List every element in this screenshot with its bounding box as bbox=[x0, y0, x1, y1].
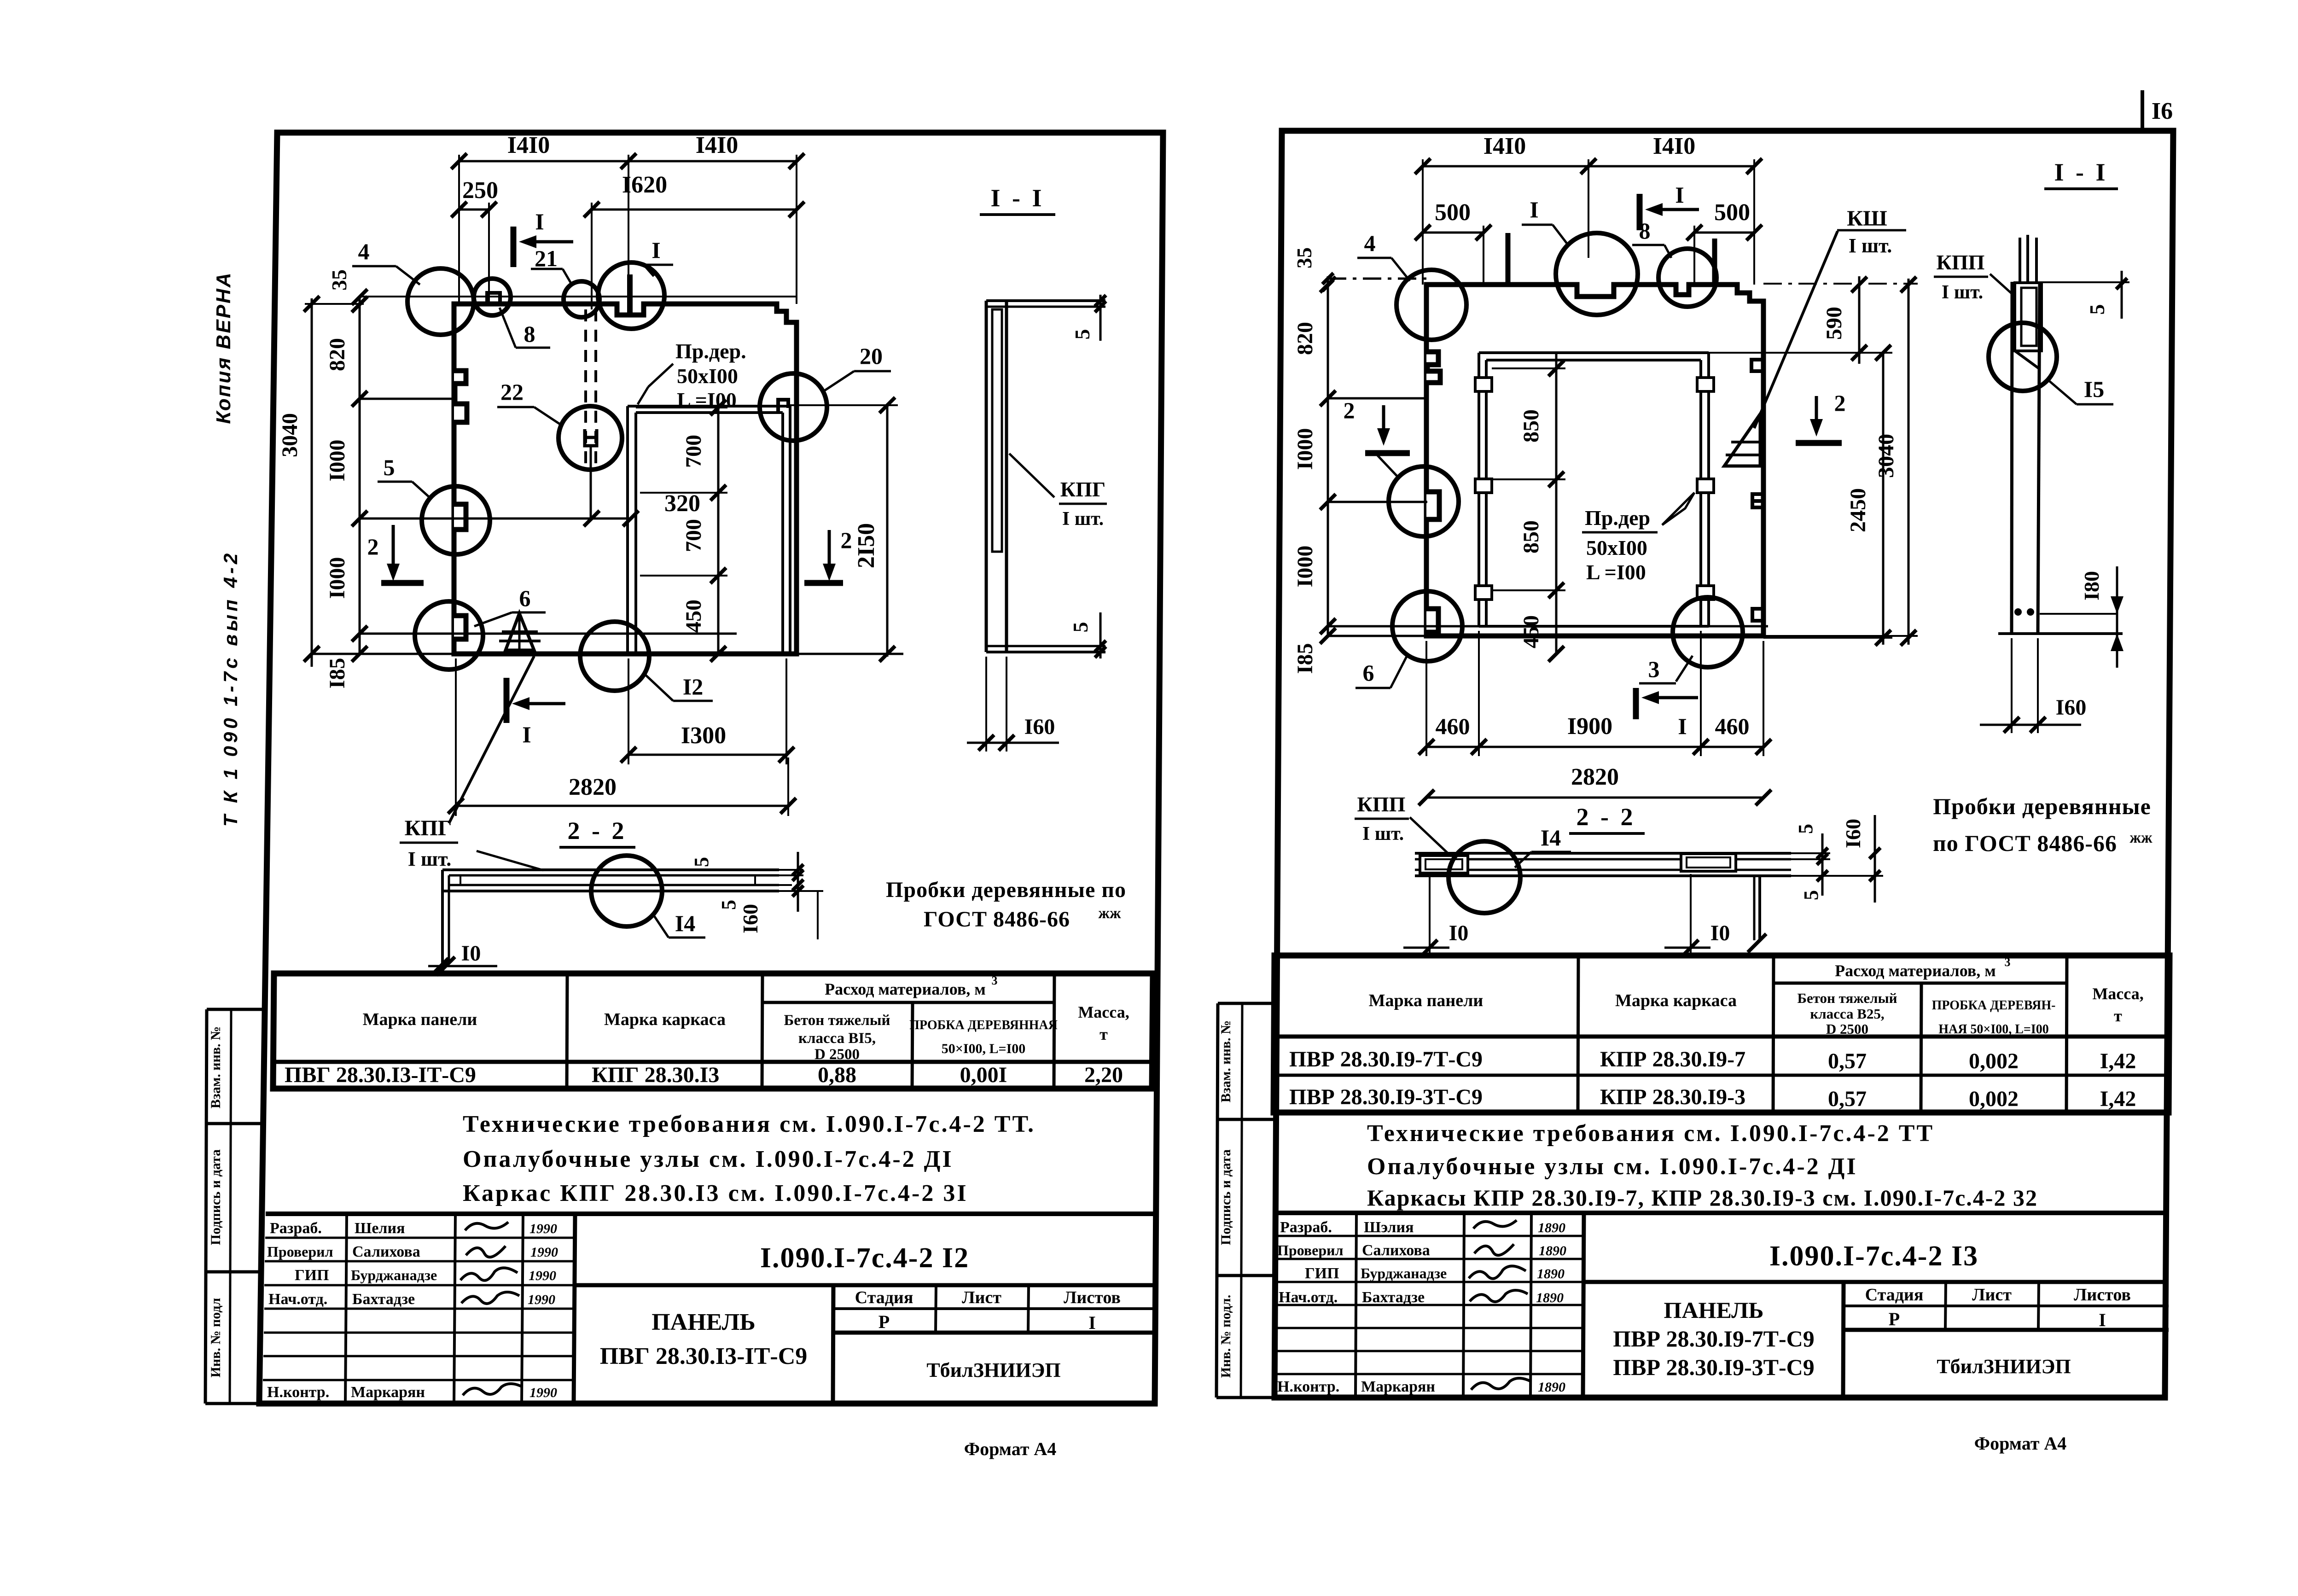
dim row 250 / 1620 bbox=[451, 172, 804, 309]
frame bar in section 2-2 bbox=[460, 875, 755, 885]
svg-text:КПР 28.30.I9-3: КПР 28.30.I9-3 bbox=[1600, 1085, 1745, 1109]
svg-text:3: 3 bbox=[992, 974, 998, 987]
svg-text:5: 5 bbox=[384, 454, 395, 480]
svg-text:1990: 1990 bbox=[530, 1245, 558, 1260]
detail circle 1 big bbox=[598, 237, 673, 329]
svg-text:I шт.: I шт. bbox=[1849, 234, 1892, 257]
svg-text:700: 700 bbox=[681, 519, 706, 552]
label КПГ 1 шт. (section I-I) bbox=[1009, 454, 1107, 530]
svg-text:I,42: I,42 bbox=[2100, 1087, 2136, 1111]
svg-text:Взам. инв. №: Взам. инв. № bbox=[208, 1026, 223, 1108]
svg-text:I5: I5 bbox=[2084, 376, 2104, 402]
wooden plug squares on jambs bbox=[1475, 378, 1714, 600]
panel ПВГ plan outline bbox=[454, 304, 797, 654]
svg-text:3040: 3040 bbox=[278, 413, 302, 457]
dim 320 bbox=[584, 490, 700, 526]
bottom dims 460/1900/460 (sheet2) bbox=[1419, 631, 1771, 756]
svg-text:I300: I300 bbox=[681, 722, 726, 749]
svg-text:Пробки деревянные по: Пробки деревянные по bbox=[886, 878, 1126, 902]
svg-text:500: 500 bbox=[1714, 199, 1750, 226]
door opening (sheet 2) bbox=[1479, 353, 1709, 626]
dim 160 (section I-I sheet2) bbox=[1980, 638, 2086, 733]
svg-text:I - I: I - I bbox=[990, 184, 1044, 212]
svg-text:I: I bbox=[2099, 1310, 2106, 1330]
svg-text:ПВР 28.30.I9-3Т-С9: ПВР 28.30.I9-3Т-С9 bbox=[1289, 1085, 1483, 1109]
panel top edge extension / axis line bbox=[360, 296, 797, 297]
svg-text:1890: 1890 bbox=[1538, 1380, 1565, 1395]
svg-text:ПВР 28.30.I9-7Т-С9: ПВР 28.30.I9-7Т-С9 bbox=[1289, 1047, 1483, 1072]
svg-text:Шэлия: Шэлия bbox=[1364, 1219, 1414, 1236]
svg-text:0,88: 0,88 bbox=[818, 1063, 856, 1087]
svg-text:I0: I0 bbox=[1710, 921, 1730, 945]
svg-text:I80: I80 bbox=[2080, 571, 2103, 600]
axis line y=1090 (sheet2) bbox=[1328, 501, 1427, 503]
svg-text:I4I0: I4I0 bbox=[1484, 133, 1526, 159]
svg-text:Нач.отд.: Нач.отд. bbox=[268, 1291, 327, 1308]
svg-text:4: 4 bbox=[1364, 230, 1376, 256]
svg-text:Формат А4: Формат А4 bbox=[1974, 1433, 2066, 1454]
loop wires above section (sheet2) bbox=[2020, 235, 2036, 283]
section 2-2 panel cut bbox=[436, 870, 779, 975]
bottom edge extension (sheet2) bbox=[1328, 635, 1426, 637]
svg-text:Салихова: Салихова bbox=[352, 1243, 420, 1260]
section mark 2 left (sheet2) bbox=[1344, 397, 1410, 453]
materials table (sheet 2) bbox=[1274, 955, 2170, 1113]
label КПП 1 шт. (near section I-I sheet2) bbox=[1934, 250, 2013, 303]
svg-text:Лист: Лист bbox=[962, 1288, 1001, 1307]
svg-text:Н.контр.: Н.контр. bbox=[1277, 1378, 1339, 1395]
svg-text:т: т bbox=[1100, 1025, 1108, 1043]
svg-text:0,57: 0,57 bbox=[1828, 1087, 1867, 1111]
svg-text:1890: 1890 bbox=[1536, 1290, 1564, 1305]
svg-text:0,00I: 0,00I bbox=[960, 1063, 1007, 1087]
svg-text:1890: 1890 bbox=[1538, 1220, 1565, 1235]
svg-text:1890: 1890 bbox=[1537, 1266, 1565, 1281]
detail circle 15 (sheet2) bbox=[1989, 323, 2113, 404]
svg-text:Расход материалов, м: Расход материалов, м bbox=[825, 980, 986, 998]
title block texts (sheet 1) bbox=[267, 1220, 1121, 1401]
svg-text:I: I bbox=[1530, 197, 1538, 222]
svg-text:450: 450 bbox=[1519, 615, 1543, 648]
svg-text:ПРОБКА ДЕРЕВЯН-: ПРОБКА ДЕРЕВЯН- bbox=[1932, 998, 2056, 1013]
bottom edge extensions bbox=[312, 653, 454, 655]
svg-text:820: 820 bbox=[325, 338, 349, 371]
dim 5 bottom (section I-I) bbox=[1069, 612, 1106, 658]
svg-text:I4: I4 bbox=[1541, 825, 1561, 850]
svg-text:Подпись и дата: Подпись и дата bbox=[1218, 1149, 1233, 1245]
svg-text:Технические требования см. I.0: Технические требования см. I.090.I-7с.4-… bbox=[463, 1111, 1036, 1137]
panel top edge extension line (sheet 2) bbox=[1328, 278, 1426, 280]
plug rect right (2-2 sheet2) bbox=[1681, 854, 1736, 871]
svg-text:Каркас КПГ 28.30.I3 см. I.090.: Каркас КПГ 28.30.I3 см. I.090.I-7с.4-2 3… bbox=[463, 1180, 968, 1206]
detail circle 14 (sheet1) bbox=[591, 856, 705, 938]
svg-text:I: I bbox=[1088, 1312, 1096, 1333]
svg-text:6: 6 bbox=[519, 585, 531, 611]
svg-text:820: 820 bbox=[1293, 322, 1317, 355]
dims 5/5/160 right (2-2 sheet2) bbox=[1791, 815, 1883, 903]
svg-text:1990: 1990 bbox=[529, 1268, 556, 1283]
svg-text:Р: Р bbox=[878, 1311, 890, 1332]
svg-text:Расход материалов, м: Расход материалов, м bbox=[1835, 961, 1996, 980]
svg-text:Инв. № подл: Инв. № подл bbox=[208, 1298, 223, 1377]
svg-text:I85: I85 bbox=[1293, 643, 1317, 674]
note Пробки деревянные по ГОСТ (sheet2) bbox=[1933, 793, 2153, 856]
svg-text:0,002: 0,002 bbox=[1969, 1049, 2019, 1073]
svg-text:I0: I0 bbox=[461, 941, 481, 966]
svg-text:КПГ: КПГ bbox=[1060, 478, 1105, 501]
svg-text:2: 2 bbox=[841, 527, 852, 553]
svg-text:Разраб.: Разраб. bbox=[1280, 1219, 1332, 1236]
svg-text:НАЯ 50×I00, L=I00: НАЯ 50×I00, L=I00 bbox=[1938, 1022, 2049, 1037]
dim 180 (sheet2) bbox=[2040, 566, 2123, 668]
svg-text:Бахтадзе: Бахтадзе bbox=[352, 1291, 415, 1308]
svg-text:ГИП: ГИП bbox=[1305, 1265, 1339, 1282]
svg-text:Маркарян: Маркарян bbox=[351, 1384, 425, 1401]
svg-text:Масса,: Масса, bbox=[2092, 984, 2143, 1003]
svg-text:Опалубочные узлы см. I.090.I-7: Опалубочные узлы см. I.090.I-7с.4-2 ДI bbox=[1367, 1153, 1858, 1180]
svg-text:Пробки деревянные: Пробки деревянные bbox=[1933, 793, 2151, 819]
label Пр.дер. 50x100 L=100 bbox=[638, 339, 746, 412]
svg-text:I900: I900 bbox=[1567, 713, 1612, 740]
section mark 2 right bbox=[804, 527, 852, 583]
section 2-2 cut (sheet2) bbox=[1415, 853, 1791, 952]
svg-text:ПРОБКА ДЕРЕВЯННАЯ: ПРОБКА ДЕРЕВЯННАЯ bbox=[909, 1018, 1058, 1032]
svg-text:I60: I60 bbox=[739, 904, 762, 933]
svg-text:460: 460 bbox=[1715, 713, 1750, 739]
svg-text:Лист: Лист bbox=[1972, 1285, 2012, 1305]
materials table (sheet 1) bbox=[273, 973, 1153, 1089]
section mark 2 right (sheet2) bbox=[1796, 390, 1846, 443]
detail circle 1 (sheet2) bbox=[1522, 197, 1638, 315]
dim 1300 opening width bbox=[621, 658, 794, 764]
handwritten margin note Копия ВЕРНА bbox=[212, 271, 235, 424]
svg-text:Каркасы КПР 28.30.I9-7, КПР 28: Каркасы КПР 28.30.I9-7, КПР 28.30.I9-3 с… bbox=[1367, 1185, 2038, 1211]
svg-text:Листов: Листов bbox=[1064, 1288, 1121, 1307]
svg-text:Н.контр.: Н.контр. bbox=[267, 1384, 329, 1401]
svg-text:Листов: Листов bbox=[2074, 1285, 2131, 1305]
svg-text:5: 5 bbox=[690, 857, 713, 867]
dim 3040 (sheet2) bbox=[1763, 277, 1918, 646]
section mark I bottom bbox=[506, 678, 565, 747]
sheet 1 frame bbox=[259, 133, 1163, 1404]
svg-text:3040: 3040 bbox=[1874, 434, 1898, 478]
dim 590 (sheet2) bbox=[1709, 276, 1892, 364]
detail circle 20 bbox=[760, 343, 891, 441]
detail circle 8 bbox=[474, 279, 550, 348]
svg-text:850: 850 bbox=[1519, 409, 1543, 443]
dims 5/5/160 right end of section 2-2 bbox=[690, 852, 823, 939]
plug rect left (2-2 sheet2) bbox=[1420, 856, 1468, 873]
svg-text:Формат А4: Формат А4 bbox=[964, 1439, 1056, 1459]
dim 5 (section I-I sheet2) bbox=[2040, 271, 2129, 319]
svg-text:3: 3 bbox=[2005, 955, 2011, 969]
door opening in panel bbox=[628, 406, 790, 654]
svg-text:I: I bbox=[1675, 182, 1684, 208]
svg-text:250: 250 bbox=[462, 177, 498, 204]
dim 2450 (sheet2) bbox=[1846, 345, 1891, 646]
svg-text:2: 2 bbox=[1344, 397, 1355, 423]
svg-text:Шелия: Шелия bbox=[355, 1220, 405, 1237]
svg-text:Пр.дер.: Пр.дер. bbox=[675, 339, 746, 363]
section mark I bottom (sheet2) bbox=[1636, 688, 1698, 739]
svg-text:4: 4 bbox=[358, 239, 370, 264]
svg-text:КПП: КПП bbox=[1937, 250, 1985, 274]
svg-text:1890: 1890 bbox=[1539, 1243, 1566, 1258]
axis line y=866 bbox=[360, 398, 456, 400]
detail circle 6 bbox=[415, 585, 546, 670]
svg-text:850: 850 bbox=[1519, 520, 1543, 553]
svg-text:Пр.дер: Пр.дер bbox=[1585, 506, 1650, 530]
svg-text:I - I: I - I bbox=[2054, 158, 2108, 186]
svg-text:20: 20 bbox=[860, 343, 883, 369]
dim 2150 opening height bbox=[790, 397, 898, 662]
svg-text:2: 2 bbox=[367, 534, 379, 559]
technical notes (sheet 2) bbox=[1367, 1120, 2038, 1211]
dim 35 (sheet2) bbox=[1292, 247, 1333, 291]
svg-text:Стадия: Стадия bbox=[855, 1288, 913, 1307]
svg-text:Нач.отд.: Нач.отд. bbox=[1279, 1289, 1338, 1306]
dim 2820 panel width bbox=[448, 658, 796, 816]
svg-text:Бетон тяжелый: Бетон тяжелый bbox=[784, 1012, 890, 1029]
svg-text:0,002: 0,002 bbox=[1969, 1087, 2019, 1111]
svg-text:3: 3 bbox=[1648, 656, 1660, 682]
svg-text:Подпись и дата: Подпись и дата bbox=[208, 1149, 223, 1245]
svg-text:I6: I6 bbox=[2152, 98, 2173, 124]
joint mark at circle 1 bbox=[627, 274, 633, 315]
label КШ 1 шт. (sheet2 plan) bbox=[1754, 206, 1906, 428]
panel ПВР plan outline bbox=[1426, 285, 1763, 636]
left dim column 820/1000/1000/185 bbox=[325, 297, 367, 688]
svg-text:I.090.I-7с.4-2 I3: I.090.I-7с.4-2 I3 bbox=[1769, 1241, 1978, 1272]
svg-text:5: 5 bbox=[1800, 890, 1822, 900]
svg-text:Р: Р bbox=[1889, 1309, 1900, 1329]
svg-text:21: 21 bbox=[535, 245, 558, 271]
svg-text:I0: I0 bbox=[1449, 921, 1469, 945]
svg-text:КШ: КШ bbox=[1847, 206, 1887, 231]
svg-text:5: 5 bbox=[717, 900, 740, 910]
svg-text:I000: I000 bbox=[325, 557, 349, 599]
svg-text:I шт.: I шт. bbox=[1362, 823, 1404, 845]
svg-text:Копия ВЕРНА: Копия ВЕРНА bbox=[212, 271, 235, 424]
svg-text:1990: 1990 bbox=[529, 1385, 557, 1400]
technical notes (sheet 1) bbox=[463, 1111, 1036, 1206]
dim 5 top (section I-I) bbox=[1070, 295, 1106, 341]
svg-text:класса В25,: класса В25, bbox=[1810, 1006, 1884, 1022]
svg-text:2: 2 bbox=[1834, 390, 1846, 416]
svg-text:L =I00: L =I00 bbox=[1586, 560, 1646, 584]
svg-text:по ГОСТ 8486-66: по ГОСТ 8486-66 bbox=[1933, 830, 2117, 856]
svg-text:ПВР 28.30.I9-7Т-С9: ПВР 28.30.I9-7Т-С9 bbox=[1613, 1326, 1815, 1351]
dim row 1410|1410 (sheet2) bbox=[1415, 133, 1762, 285]
svg-text:КПГ: КПГ bbox=[405, 816, 452, 840]
svg-text:Инв. № подл.: Инв. № подл. bbox=[1218, 1295, 1233, 1378]
section I-I title (sheet2) bbox=[2044, 158, 2118, 189]
svg-text:D 2500: D 2500 bbox=[814, 1046, 860, 1063]
detail circle 14 (sheet2) bbox=[1449, 825, 1571, 913]
svg-text:I2: I2 bbox=[683, 674, 703, 699]
dim 10 right (2-2 sheet2) bbox=[1664, 874, 1730, 955]
svg-text:6: 6 bbox=[1363, 660, 1374, 686]
svg-text:Марка панели: Марка панели bbox=[363, 1010, 477, 1029]
svg-text:500: 500 bbox=[1435, 199, 1471, 226]
frame КПГ inside section bbox=[992, 309, 1002, 552]
svg-text:ГОСТ 8486-66: ГОСТ 8486-66 bbox=[924, 907, 1070, 932]
svg-text:I000: I000 bbox=[1293, 546, 1317, 588]
section mark I top (sheet2) bbox=[1640, 182, 1699, 230]
svg-text:I4: I4 bbox=[675, 910, 695, 936]
svg-text:жж: жж bbox=[1098, 905, 1121, 922]
dim 160 (section I-I) bbox=[967, 657, 1059, 751]
svg-text:I шт.: I шт. bbox=[1942, 282, 1983, 303]
svg-text:I: I bbox=[1678, 713, 1687, 739]
handwritten margin note ТК 1.090.1-7с вып 4-2 bbox=[220, 550, 241, 827]
dim 3040 overall height bbox=[278, 296, 364, 667]
detail circle 22 bbox=[497, 379, 622, 470]
left dim column 820/1000/1000/185 (sheet2) bbox=[1293, 276, 1336, 674]
svg-text:I: I bbox=[522, 722, 531, 747]
svg-text:I: I bbox=[652, 237, 660, 263]
svg-text:5: 5 bbox=[1794, 824, 1817, 834]
detail circle mid-left (sheet2) bbox=[1376, 454, 1459, 536]
axis line y=1360 (sheet2) bbox=[1328, 625, 1768, 628]
title block (sheet 2) bbox=[1275, 1213, 2169, 1398]
label Пр.дер 50x100 L=100 (sheet2) bbox=[1582, 493, 1694, 584]
svg-text:I000: I000 bbox=[325, 440, 349, 482]
svg-text:I4I0: I4I0 bbox=[696, 132, 738, 158]
svg-text:2820: 2820 bbox=[569, 774, 617, 800]
section mark I top bbox=[513, 209, 573, 267]
svg-text:I,42: I,42 bbox=[2100, 1049, 2136, 1073]
dim column 700/700/450 in opening bbox=[636, 400, 727, 662]
svg-text:ГИП: ГИП bbox=[295, 1267, 329, 1284]
axis line y=1126 with 320 tie bbox=[360, 518, 631, 520]
svg-text:Проверил: Проверил bbox=[1277, 1242, 1344, 1258]
svg-text:I: I bbox=[535, 209, 544, 234]
svg-text:жж: жж bbox=[2129, 829, 2153, 846]
joint marks top (sheet 2) bbox=[1506, 233, 1511, 285]
hook detail in circle 20 bbox=[778, 400, 788, 413]
svg-text:35: 35 bbox=[1292, 247, 1316, 268]
label КПП 1 шт. (section 2-2 sheet2) bbox=[1355, 792, 1450, 856]
section 2-2 title (sheet2) bbox=[1569, 803, 1645, 833]
svg-text:ПАНЕЛЬ: ПАНЕЛЬ bbox=[1664, 1297, 1764, 1323]
svg-text:590: 590 bbox=[1822, 307, 1846, 340]
svg-text:I60: I60 bbox=[2056, 695, 2087, 720]
svg-text:Стадия: Стадия bbox=[1865, 1285, 1924, 1305]
svg-text:320: 320 bbox=[664, 490, 700, 517]
svg-text:I4I0: I4I0 bbox=[507, 132, 550, 158]
svg-text:Взам. инв. №: Взам. инв. № bbox=[1218, 1020, 1233, 1102]
svg-text:ТбилЗНИИЭП: ТбилЗНИИЭП bbox=[1937, 1355, 2071, 1378]
svg-text:I60: I60 bbox=[1841, 819, 1865, 848]
axis line y=1376 bbox=[360, 633, 737, 635]
svg-text:Марка каркаса: Марка каркаса bbox=[604, 1010, 726, 1029]
detail circle 3 (sheet2) bbox=[1639, 597, 1743, 683]
detail circle 8 (sheet2) bbox=[1632, 218, 1716, 307]
svg-text:ПВГ 28.30.I3-IТ-С9: ПВГ 28.30.I3-IТ-С9 bbox=[285, 1063, 476, 1087]
svg-text:Опалубочные узлы см. I.090.I-7: Опалубочные узлы см. I.090.I-7с.4-2 ДI bbox=[463, 1146, 954, 1172]
svg-text:I60: I60 bbox=[1024, 715, 1055, 739]
svg-text:I000: I000 bbox=[1293, 428, 1317, 470]
svg-text:ТбилЗНИИЭП: ТбилЗНИИЭП bbox=[926, 1359, 1060, 1381]
svg-text:450: 450 bbox=[681, 600, 706, 633]
detail circle 12 bbox=[580, 622, 713, 701]
plug КПП in section (sheet2) bbox=[2015, 283, 2042, 368]
title block texts (sheet 2) bbox=[1277, 1219, 2131, 1395]
svg-text:460: 460 bbox=[1436, 713, 1470, 739]
title block (sheet 1) bbox=[263, 1214, 1155, 1404]
svg-text:Масса,: Масса, bbox=[1078, 1003, 1129, 1021]
svg-text:2 - 2: 2 - 2 bbox=[568, 817, 627, 845]
svg-text:ПВГ 28.30.I3-IТ-С9: ПВГ 28.30.I3-IТ-С9 bbox=[600, 1343, 808, 1369]
svg-text:5: 5 bbox=[1070, 329, 1094, 340]
dim row 1410|1410 bbox=[451, 132, 804, 304]
svg-text:L =I00: L =I00 bbox=[677, 388, 737, 412]
svg-text:класса ВI5,: класса ВI5, bbox=[798, 1030, 876, 1047]
svg-text:5: 5 bbox=[1069, 622, 1092, 633]
svg-text:Салихова: Салихова bbox=[1362, 1242, 1430, 1259]
svg-text:Бетон тяжелый: Бетон тяжелый bbox=[1797, 990, 1897, 1006]
svg-text:Т К 1 090 1-7с вып 4-2: Т К 1 090 1-7с вып 4-2 bbox=[220, 550, 241, 827]
sheet 2 margin stamp column bbox=[1216, 1003, 1278, 1398]
svg-text:Марка каркаса: Марка каркаса bbox=[1615, 991, 1737, 1010]
svg-text:2I50: 2I50 bbox=[853, 523, 879, 568]
svg-text:Маркарян: Маркарян bbox=[1361, 1378, 1435, 1395]
axis line y=865 (sheet2) bbox=[1328, 397, 1427, 400]
svg-text:Проверил: Проверил bbox=[267, 1243, 333, 1260]
dim 850/850/450 in opening (sheet2) bbox=[1492, 353, 1565, 662]
svg-text:50×I00, L=I00: 50×I00, L=I00 bbox=[942, 1041, 1026, 1056]
plug symbol in circle 22 bbox=[585, 429, 597, 446]
svg-text:50хI00: 50хI00 bbox=[677, 364, 738, 388]
note Пробки деревянные по ГОСТ 8486-66жж (sheet1) bbox=[886, 878, 1126, 932]
svg-text:I шт.: I шт. bbox=[408, 848, 452, 870]
embedded wedge anchor near circle 6 bbox=[499, 613, 541, 650]
svg-text:35: 35 bbox=[327, 269, 351, 291]
section mark 2 left bbox=[367, 525, 424, 583]
dashed joint lines to circle 22 bbox=[584, 309, 587, 466]
svg-text:22: 22 bbox=[500, 379, 524, 405]
svg-text:2450: 2450 bbox=[1846, 488, 1870, 532]
svg-text:т: т bbox=[2114, 1007, 2122, 1025]
dim 2820 (sheet2) bbox=[1419, 764, 1771, 805]
svg-text:КПГ 28.30.I3: КПГ 28.30.I3 bbox=[592, 1063, 719, 1087]
svg-text:ПВР 28.30.I9-3Т-С9: ПВР 28.30.I9-3Т-С9 bbox=[1613, 1354, 1815, 1380]
svg-text:КПП: КПП bbox=[1357, 792, 1406, 816]
svg-text:I.090.I-7с.4-2 I2: I.090.I-7с.4-2 I2 bbox=[760, 1242, 969, 1274]
section I-I panel cut bbox=[986, 301, 1105, 652]
sheet 2 frame bbox=[1274, 131, 2173, 1398]
section I-I title (sheet 1) bbox=[980, 184, 1055, 215]
sheet 1 margin stamp column (Взам.инв.№ / Подпись и дата / Инв.№ подл.) bbox=[205, 1009, 265, 1404]
detail circle 21 bbox=[531, 245, 599, 317]
svg-text:1990: 1990 bbox=[529, 1221, 557, 1236]
dim row 500 / 500 (sheet2) bbox=[1415, 199, 1762, 285]
detail circle 4 (sheet2) bbox=[1357, 230, 1466, 340]
dim 10 left (2-2 sheet2) bbox=[1403, 876, 1468, 955]
svg-text:ПАНЕЛЬ: ПАНЕЛЬ bbox=[652, 1309, 756, 1335]
page number 16 with tick bbox=[2142, 90, 2173, 132]
svg-text:700: 700 bbox=[681, 435, 706, 468]
svg-text:I85: I85 bbox=[325, 658, 349, 689]
detail circle 5 bbox=[378, 454, 490, 554]
svg-text:Технические требования см. I.0: Технические требования см. I.090.I-7с.4-… bbox=[1367, 1120, 1934, 1147]
svg-text:1990: 1990 bbox=[528, 1292, 555, 1307]
svg-text:Разраб.: Разраб. bbox=[270, 1220, 322, 1237]
svg-text:Бурджанадзе: Бурджанадзе bbox=[1361, 1265, 1447, 1281]
plug mark at circle 8 bbox=[487, 293, 500, 304]
svg-text:I шт.: I шт. bbox=[1062, 508, 1104, 530]
